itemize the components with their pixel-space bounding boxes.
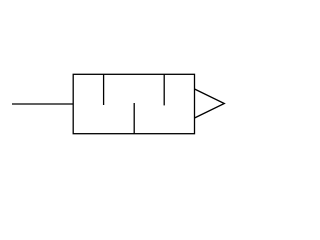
baffle 2 (vertical from top wall) [163,74,165,105]
exhaust triangle (right port) [195,89,225,118]
silencer body (rectangle) [73,74,194,133]
baffle 1 (vertical from top wall) [103,74,105,105]
wire (inlet line, left port) [12,103,73,105]
baffle 3 (vertical from bottom wall) [133,103,135,134]
